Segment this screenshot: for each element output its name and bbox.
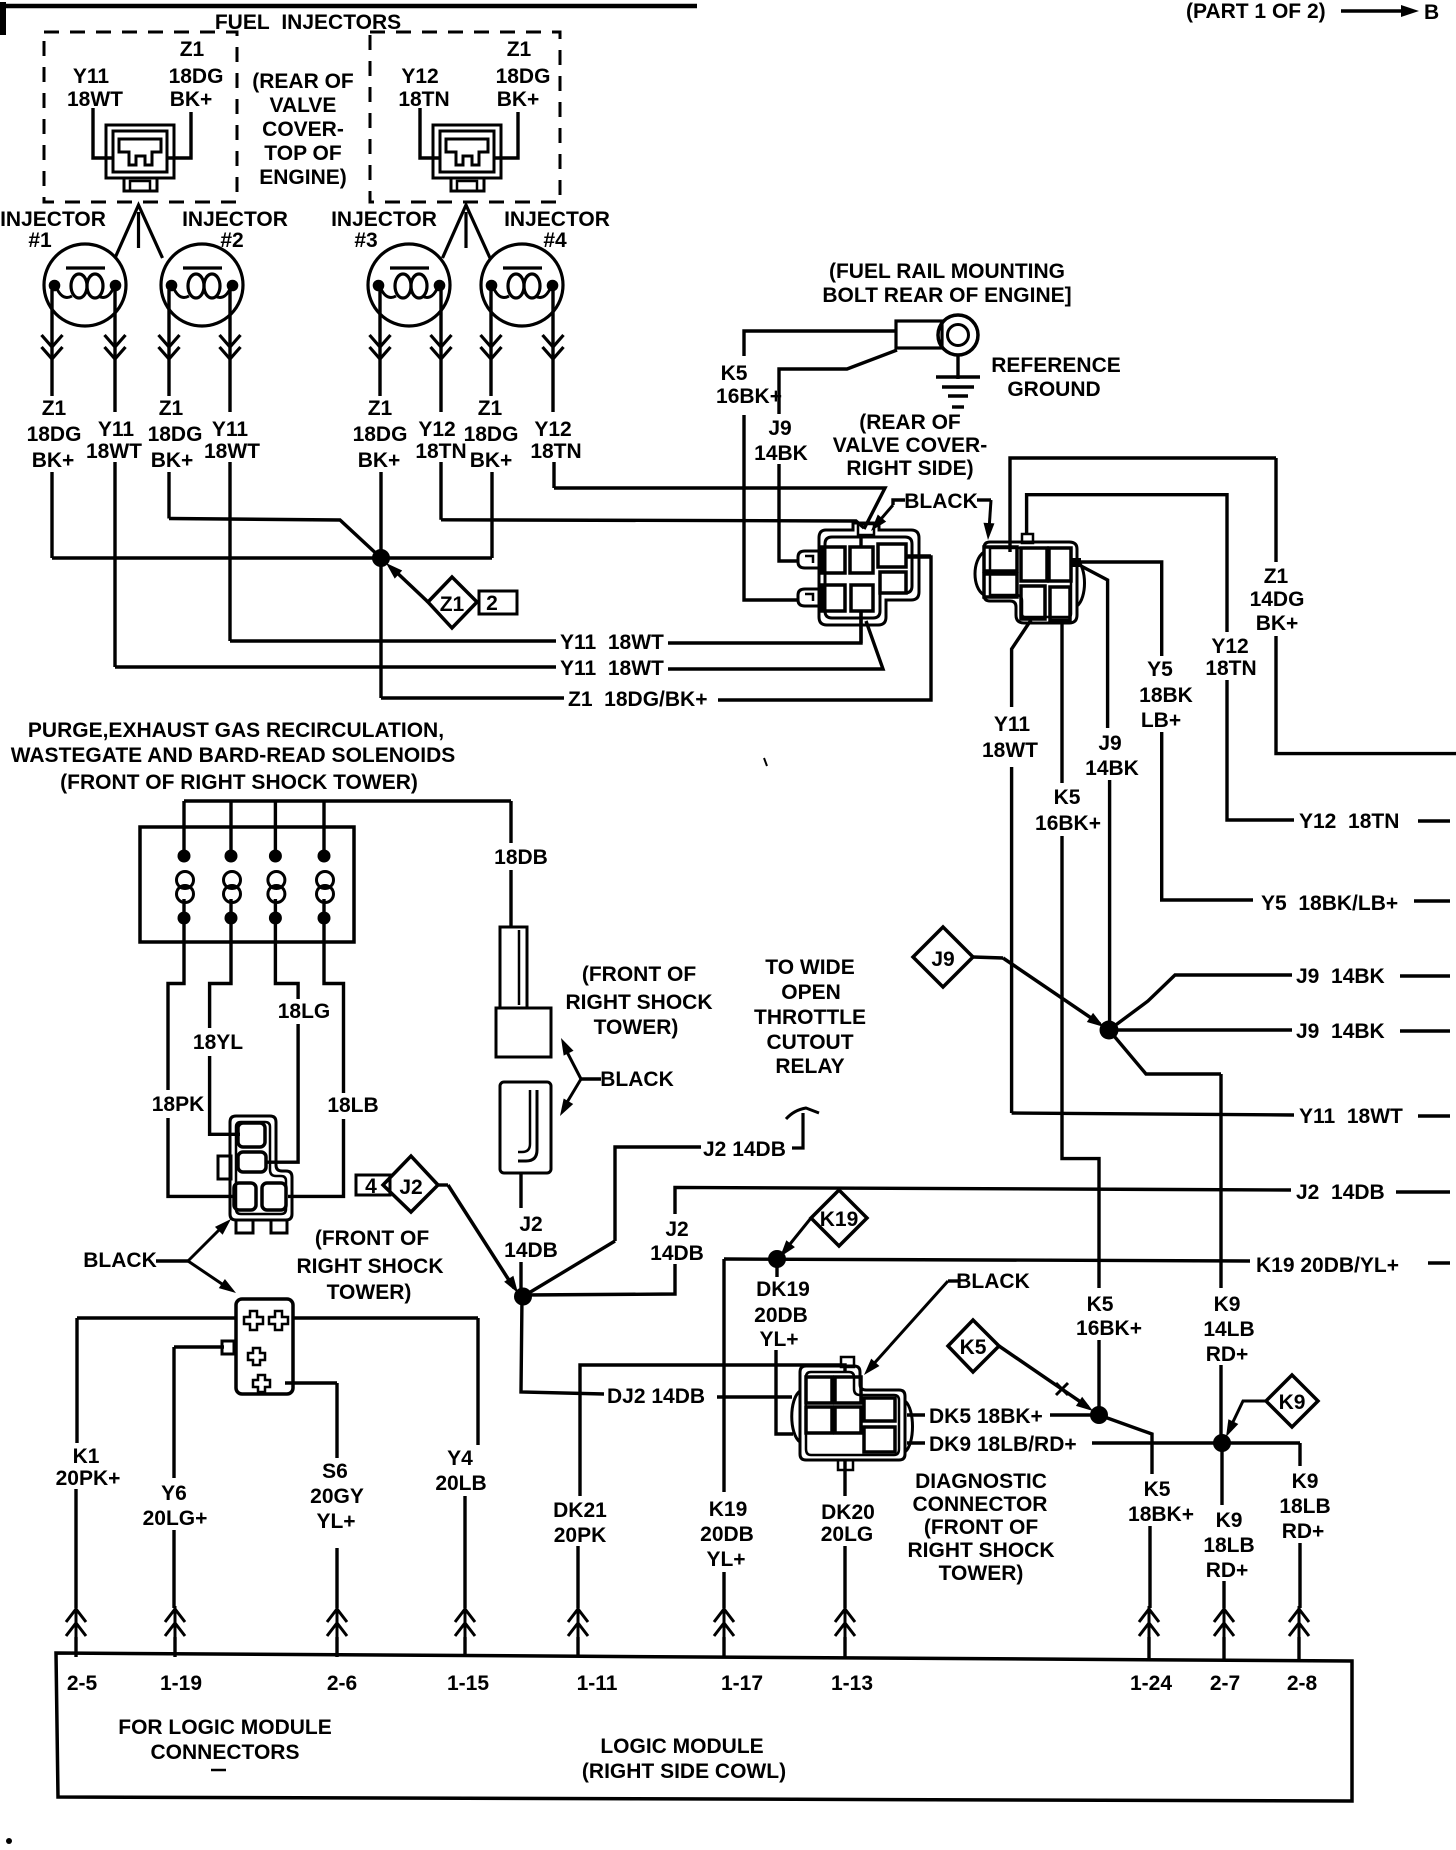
svg-text:Y12: Y12 — [418, 418, 455, 441]
svg-text:Z1: Z1 — [478, 397, 503, 420]
svg-text:14LB: 14LB — [1203, 1318, 1254, 1341]
svg-text:INJECTOR: INJECTOR — [504, 208, 610, 231]
svg-text:20PK: 20PK — [554, 1524, 607, 1547]
svg-text:FOR LOGIC MODULE: FOR LOGIC MODULE — [118, 1716, 332, 1739]
svg-text:INJECTOR: INJECTOR — [0, 208, 106, 231]
svg-text:14DB: 14DB — [650, 1242, 704, 1265]
svg-text:CUTOUT: CUTOUT — [766, 1031, 853, 1054]
svg-text:14BK: 14BK — [754, 442, 808, 465]
svg-text:Y12: Y12 — [1211, 635, 1248, 658]
svg-text:18WT: 18WT — [204, 440, 260, 463]
svg-text:J9 14BK: J9 14BK — [1296, 1020, 1385, 1043]
svg-text:RIGHT SHOCK: RIGHT SHOCK — [566, 991, 713, 1014]
svg-text:BOLT REAR OF ENGINE]: BOLT REAR OF ENGINE] — [822, 284, 1071, 307]
svg-text:J2: J2 — [519, 1213, 542, 1236]
svg-text:1-17: 1-17 — [721, 1672, 763, 1695]
svg-text:16BK+: 16BK+ — [1076, 1317, 1142, 1340]
svg-text:#4: #4 — [543, 229, 567, 252]
svg-text:J2: J2 — [399, 1176, 422, 1199]
svg-text:2-5: 2-5 — [67, 1672, 98, 1695]
svg-text:Z1: Z1 — [159, 397, 184, 420]
svg-text:Z1: Z1 — [180, 38, 205, 61]
svg-text:K5: K5 — [721, 362, 748, 385]
svg-text:14DB: 14DB — [504, 1239, 558, 1262]
svg-text:RIGHT SHOCK: RIGHT SHOCK — [908, 1539, 1055, 1562]
svg-text:(FRONT OF: (FRONT OF — [924, 1516, 1038, 1539]
svg-text:18DG: 18DG — [496, 65, 551, 88]
svg-text:16BK+: 16BK+ — [716, 385, 782, 408]
svg-text:(FUEL RAIL MOUNTING: (FUEL RAIL MOUNTING — [829, 260, 1065, 283]
svg-text:20LG+: 20LG+ — [143, 1507, 208, 1530]
svg-text:DK21: DK21 — [553, 1499, 607, 1522]
svg-text:18BK: 18BK — [1139, 684, 1193, 707]
svg-text:B: B — [1424, 1, 1439, 24]
svg-text:INJECTOR: INJECTOR — [182, 208, 288, 231]
svg-text:DIAGNOSTIC: DIAGNOSTIC — [915, 1470, 1047, 1493]
svg-text:Y11 18WT: Y11 18WT — [560, 657, 664, 680]
svg-text:1-15: 1-15 — [447, 1672, 489, 1695]
svg-text:DK5 18BK+: DK5 18BK+ — [929, 1405, 1043, 1428]
svg-text:Y12: Y12 — [534, 418, 571, 441]
svg-text:S6: S6 — [322, 1460, 348, 1483]
svg-text:18DG: 18DG — [353, 423, 408, 446]
svg-text:18LB: 18LB — [327, 1094, 378, 1117]
svg-text:(FRONT OF: (FRONT OF — [582, 963, 696, 986]
svg-text:REFERENCE: REFERENCE — [991, 354, 1121, 377]
svg-text:TOP OF: TOP OF — [264, 142, 342, 165]
svg-text:K9: K9 — [1279, 1391, 1306, 1414]
svg-text:14DG: 14DG — [1250, 588, 1305, 611]
svg-text:18WT: 18WT — [67, 88, 123, 111]
svg-text:1-13: 1-13 — [831, 1672, 873, 1695]
svg-text:1-24: 1-24 — [1130, 1672, 1172, 1695]
svg-text:K5: K5 — [1144, 1478, 1171, 1501]
svg-text:1-11: 1-11 — [577, 1672, 618, 1695]
svg-text:Y11 18WT: Y11 18WT — [1299, 1105, 1403, 1128]
svg-text:RELAY: RELAY — [775, 1055, 844, 1078]
svg-text:BK+: BK+ — [32, 449, 75, 472]
svg-text:RIGHT SHOCK: RIGHT SHOCK — [297, 1255, 444, 1278]
svg-text:Y4: Y4 — [447, 1447, 473, 1470]
svg-text:Y12 18TN: Y12 18TN — [1299, 810, 1399, 833]
svg-text:Z1: Z1 — [368, 397, 393, 420]
svg-text:BK+: BK+ — [170, 88, 213, 111]
svg-text:RIGHT SIDE): RIGHT SIDE) — [846, 457, 973, 480]
svg-text:J2: J2 — [665, 1218, 688, 1241]
svg-text:ENGINE): ENGINE) — [259, 166, 347, 189]
svg-text:Z1: Z1 — [1264, 565, 1289, 588]
svg-text:BK+: BK+ — [358, 449, 401, 472]
svg-text:BLACK: BLACK — [956, 1270, 1030, 1293]
svg-text:2: 2 — [486, 592, 498, 615]
svg-text:18TN: 18TN — [415, 440, 466, 463]
svg-text:BLACK: BLACK — [83, 1249, 157, 1272]
svg-text:20PK+: 20PK+ — [56, 1467, 121, 1490]
svg-text:DK9 18LB/RD+: DK9 18LB/RD+ — [929, 1433, 1077, 1456]
svg-text:18WT: 18WT — [86, 440, 142, 463]
svg-text:20LG: 20LG — [821, 1523, 874, 1546]
svg-text:J9: J9 — [1098, 732, 1121, 755]
svg-text:COVER-: COVER- — [262, 118, 344, 141]
svg-text:DK19: DK19 — [756, 1278, 810, 1301]
svg-text:18DB: 18DB — [494, 846, 548, 869]
svg-text:TOWER): TOWER) — [939, 1562, 1024, 1585]
svg-text:Z1: Z1 — [440, 593, 465, 616]
svg-text:THROTTLE: THROTTLE — [754, 1006, 866, 1029]
svg-text:RD+: RD+ — [1206, 1343, 1249, 1366]
svg-text:(REAR OF: (REAR OF — [252, 70, 354, 93]
svg-text:Y11: Y11 — [212, 418, 249, 441]
svg-text:VALVE COVER-: VALVE COVER- — [833, 434, 987, 457]
svg-text:20DB: 20DB — [700, 1523, 754, 1546]
svg-text:18TN: 18TN — [398, 88, 449, 111]
svg-text:(REAR OF: (REAR OF — [859, 411, 961, 434]
svg-text:Y5: Y5 — [1147, 658, 1173, 681]
svg-text:20LB: 20LB — [435, 1472, 486, 1495]
svg-text:WASTEGATE AND BARD-READ SOLENO: WASTEGATE AND BARD-READ SOLENOIDS — [11, 744, 456, 767]
svg-text:18BK+: 18BK+ — [1128, 1503, 1194, 1526]
svg-text:Y11: Y11 — [98, 418, 135, 441]
svg-text:Z1 18DG/BK+: Z1 18DG/BK+ — [568, 688, 707, 711]
svg-text:TOWER): TOWER) — [594, 1016, 679, 1039]
svg-text:K5: K5 — [1087, 1293, 1114, 1316]
svg-text:Y11: Y11 — [994, 713, 1031, 736]
svg-text:BK+: BK+ — [497, 88, 540, 111]
svg-text:18YL: 18YL — [193, 1031, 243, 1054]
svg-text:#1: #1 — [28, 229, 52, 252]
svg-text:J2 14DB: J2 14DB — [1296, 1181, 1385, 1204]
svg-text:YL+: YL+ — [316, 1510, 355, 1533]
svg-text:K9: K9 — [1292, 1470, 1319, 1493]
svg-text:J9: J9 — [768, 417, 791, 440]
svg-text:18TN: 18TN — [1205, 657, 1256, 680]
svg-text:2-6: 2-6 — [327, 1672, 357, 1695]
svg-text:Z1: Z1 — [507, 38, 532, 61]
svg-text:Y11: Y11 — [73, 65, 110, 88]
svg-text:TOWER): TOWER) — [327, 1281, 412, 1304]
svg-text:18LB: 18LB — [1279, 1495, 1330, 1518]
svg-text:18DG: 18DG — [27, 423, 82, 446]
svg-text:LB+: LB+ — [1141, 709, 1181, 732]
svg-text:18DG: 18DG — [464, 423, 519, 446]
svg-text:(FRONT OF: (FRONT OF — [315, 1227, 429, 1250]
svg-text:RD+: RD+ — [1282, 1520, 1325, 1543]
svg-text:18LG: 18LG — [278, 1000, 331, 1023]
svg-text:LOGIC MODULE: LOGIC MODULE — [600, 1735, 763, 1758]
svg-text:Y11 18WT: Y11 18WT — [560, 631, 664, 654]
svg-text:BK+: BK+ — [470, 449, 513, 472]
svg-text:Y6: Y6 — [161, 1482, 187, 1505]
svg-text:Y5 18BK/LB+: Y5 18BK/LB+ — [1261, 892, 1398, 915]
svg-text:Z1: Z1 — [42, 397, 67, 420]
svg-text:J9: J9 — [931, 948, 954, 971]
svg-text:GROUND: GROUND — [1007, 378, 1100, 401]
svg-text:BK+: BK+ — [1256, 612, 1299, 635]
svg-text:#3: #3 — [354, 229, 377, 252]
svg-text:K5: K5 — [960, 1336, 987, 1359]
svg-text:DJ2 14DB: DJ2 14DB — [607, 1385, 705, 1408]
svg-text:CONNECTOR: CONNECTOR — [913, 1493, 1048, 1516]
svg-text:18WT: 18WT — [982, 739, 1038, 762]
svg-text:18DG: 18DG — [148, 423, 203, 446]
svg-text:RD+: RD+ — [1206, 1559, 1249, 1582]
svg-text:K19: K19 — [709, 1498, 748, 1521]
svg-text:K19 20DB/YL+: K19 20DB/YL+ — [1256, 1254, 1399, 1277]
svg-text:YL+: YL+ — [759, 1328, 798, 1351]
svg-text:CONNECTORS: CONNECTORS — [151, 1741, 300, 1764]
svg-text:1-19: 1-19 — [160, 1672, 202, 1695]
svg-text:14BK: 14BK — [1085, 757, 1139, 780]
svg-text:K1: K1 — [73, 1445, 100, 1468]
svg-text:TO WIDE: TO WIDE — [765, 956, 854, 979]
svg-text:K9: K9 — [1214, 1293, 1241, 1316]
svg-text:K9: K9 — [1216, 1509, 1243, 1532]
svg-text:BK+: BK+ — [151, 449, 194, 472]
svg-text:(FRONT OF RIGHT SHOCK TOWER): (FRONT OF RIGHT SHOCK TOWER) — [60, 771, 418, 794]
svg-text:INJECTOR: INJECTOR — [331, 208, 437, 231]
svg-text:18DG: 18DG — [169, 65, 224, 88]
svg-text:Y12: Y12 — [401, 65, 438, 88]
svg-text:K19: K19 — [820, 1208, 859, 1231]
svg-text:OPEN: OPEN — [781, 981, 841, 1004]
svg-text:VALVE: VALVE — [270, 94, 337, 117]
svg-text:PURGE,EXHAUST GAS RECIRCULATIO: PURGE,EXHAUST GAS RECIRCULATION, — [28, 719, 444, 742]
svg-text:YL+: YL+ — [706, 1548, 745, 1571]
svg-text:2-8: 2-8 — [1287, 1672, 1318, 1695]
svg-text:18LB: 18LB — [1203, 1534, 1254, 1557]
svg-text:K5: K5 — [1054, 786, 1081, 809]
svg-text:BLACK: BLACK — [904, 490, 978, 513]
svg-text:(PART 1 OF 2): (PART 1 OF 2) — [1186, 0, 1326, 23]
svg-text:18PK: 18PK — [152, 1093, 205, 1116]
svg-text:20GY: 20GY — [310, 1485, 364, 1508]
svg-text:J2 14DB: J2 14DB — [703, 1138, 786, 1161]
svg-text:18TN: 18TN — [530, 440, 581, 463]
svg-text:2-7: 2-7 — [1210, 1672, 1240, 1695]
svg-text:(RIGHT SIDE COWL): (RIGHT SIDE COWL) — [582, 1760, 786, 1783]
svg-text:J9 14BK: J9 14BK — [1296, 965, 1385, 988]
svg-text:16BK+: 16BK+ — [1035, 812, 1101, 835]
svg-text:BLACK: BLACK — [600, 1068, 674, 1091]
svg-text:20DB: 20DB — [754, 1304, 808, 1327]
svg-text:4: 4 — [365, 1175, 377, 1198]
svg-text:DK20: DK20 — [821, 1501, 875, 1524]
